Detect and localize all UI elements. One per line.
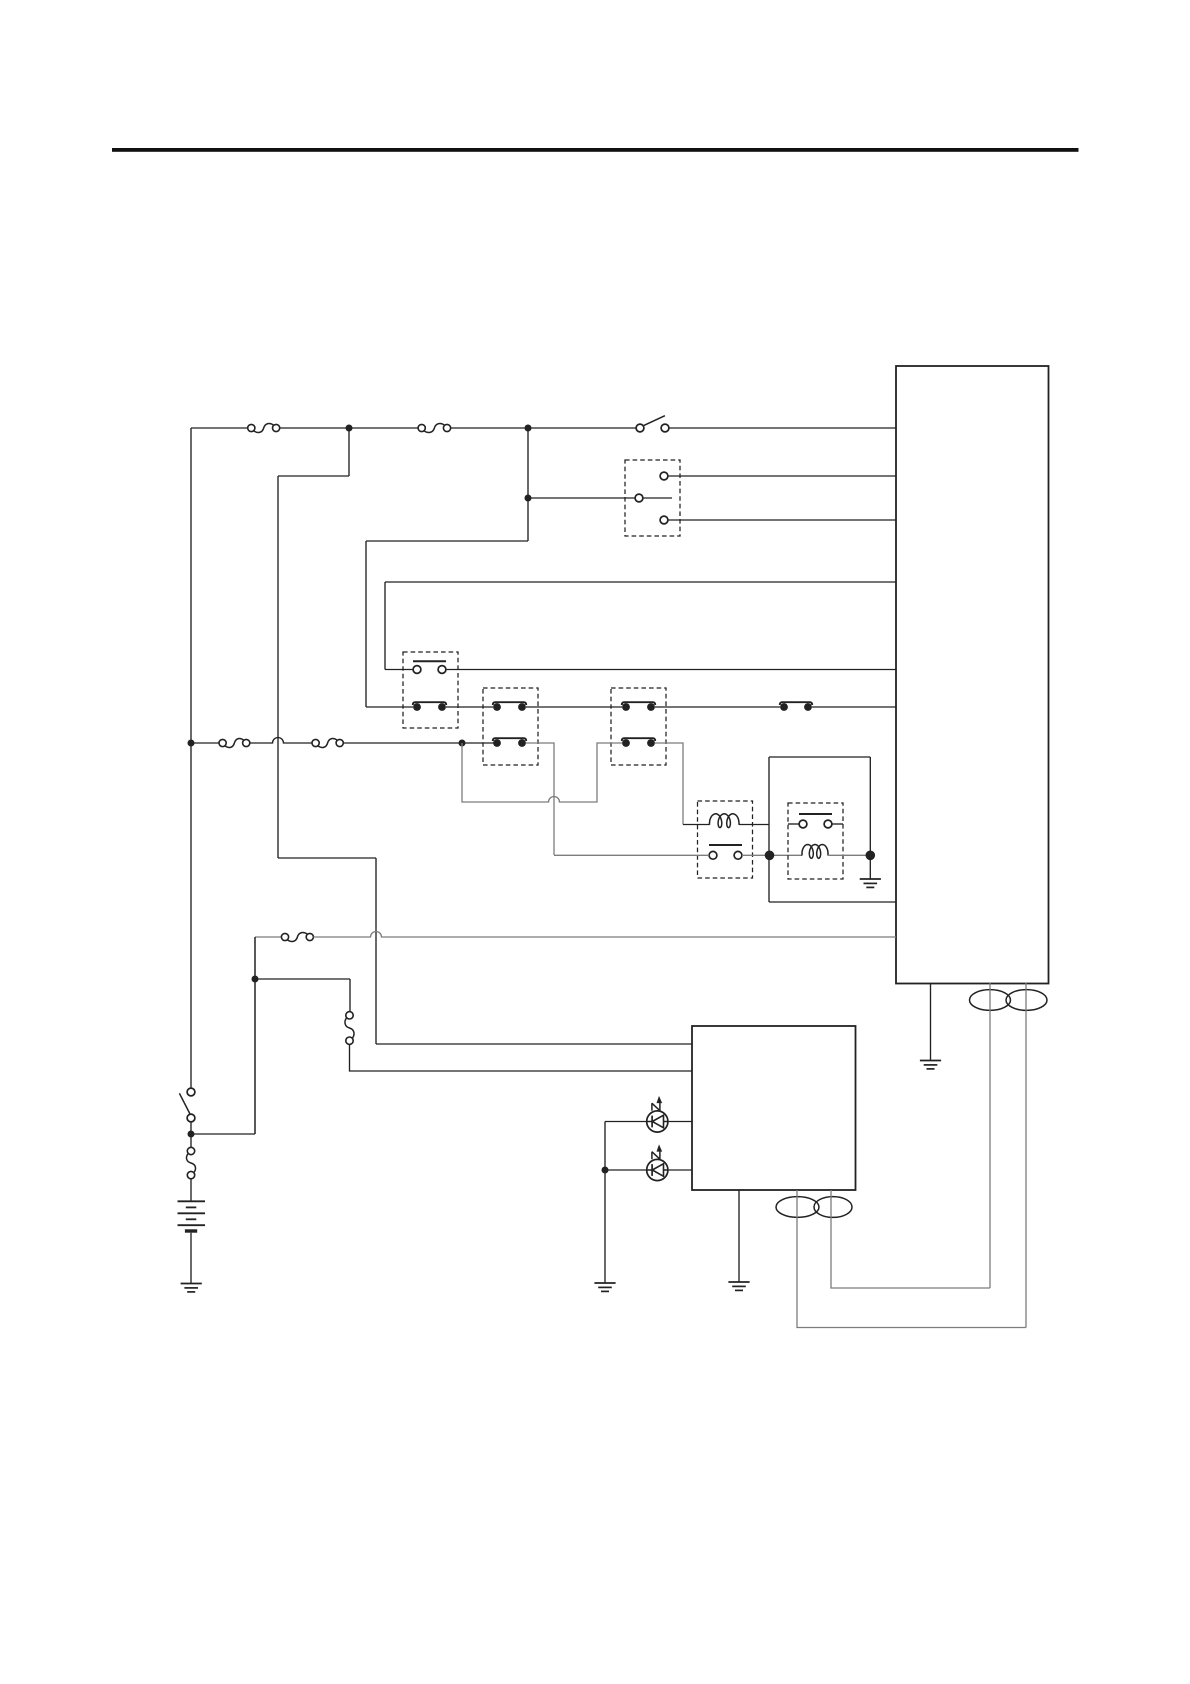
- ground G4 (meter): [728, 1281, 749, 1283]
- wire top feed y=428 segment C: [451, 427, 637, 429]
- page header rule: [112, 148, 1079, 152]
- connector contact pair P1: [780, 703, 788, 711]
- relay K1 open contact: [413, 666, 421, 674]
- kill switch S3: [187, 1088, 195, 1096]
- wire U1 pin x=990 down: [989, 983, 991, 1288]
- main switch S2 (dashed box): [625, 460, 680, 536]
- wire gray y=855 right: [828, 854, 866, 856]
- wire y=707 segment C: [526, 706, 622, 708]
- wire top feed y=428 segment A: [191, 427, 248, 429]
- wire y=743 segment A: [191, 742, 219, 744]
- wire switch S3 feed: [190, 1088, 192, 1090]
- wire J9 down: [190, 1134, 192, 1147]
- node J9: [188, 1131, 195, 1138]
- wire loop x=769 vertical: [768, 757, 770, 902]
- relay K2 lower closed contact: [493, 739, 501, 747]
- wire battery to ground: [190, 1233, 192, 1284]
- horn H1 (dashed box): [698, 801, 753, 878]
- node J4: [188, 740, 195, 747]
- relay K3 (dashed box): [611, 688, 666, 765]
- wire U1 pin y=582: [385, 581, 896, 583]
- main switch S2 common contact: [635, 494, 643, 502]
- relay K4 (dashed box): [788, 803, 843, 879]
- wire y=707 segment B: [446, 706, 493, 708]
- LED D2: [647, 1159, 668, 1180]
- node J7: [866, 851, 876, 861]
- fuse F1: [248, 424, 255, 431]
- wire J2 down: [527, 428, 529, 541]
- wire meter to ground: [738, 1190, 740, 1282]
- node J2: [525, 425, 532, 432]
- wire K3 to horn coil: [655, 743, 683, 825]
- wire switch S1 to U1 pin1: [669, 427, 896, 429]
- wire x=385 vertical: [384, 582, 386, 670]
- wire y=707 left segment: [366, 706, 413, 708]
- fuse F6 (vertical): [346, 1012, 353, 1019]
- wire U1 to ground: [930, 983, 932, 1061]
- wire loop x=870 vertical: [869, 757, 871, 855]
- wire coil H1 to x=769: [739, 824, 769, 826]
- wire top feed y=428 segment B: [280, 427, 418, 429]
- horn H1 coil: [710, 814, 740, 828]
- wire relay K1 to U1 pin: [446, 669, 896, 671]
- node J3: [525, 495, 532, 502]
- wire y=858 jog right: [278, 857, 376, 859]
- wire coil H1 left lead: [683, 824, 710, 826]
- wire y=476 left jog: [278, 475, 349, 477]
- wire y=743 to corner x=554: [526, 743, 554, 855]
- wire LED2 right lead: [668, 1169, 692, 1171]
- node J8: [252, 976, 259, 983]
- wire x=605 vertical: [604, 1122, 606, 1284]
- ground G1: [860, 878, 881, 880]
- wire x=255 vertical: [254, 937, 256, 1134]
- ground G5 (ECU): [920, 1060, 941, 1062]
- wire y=707 segment D: [655, 706, 780, 708]
- wire gray y=855 mid: [742, 854, 802, 856]
- LED D1: [647, 1111, 668, 1132]
- wire fuse F6 down corner: [350, 1044, 693, 1071]
- ground G3 (LED): [594, 1282, 615, 1284]
- relay K2 (dashed box): [483, 688, 538, 765]
- wire battery feed top-left vertical: [190, 428, 192, 1090]
- node J10: [602, 1167, 609, 1174]
- relay K3 upper closed contact: [622, 703, 630, 711]
- relay K1 (dashed box): [403, 652, 458, 728]
- wire LED1 left lead: [605, 1121, 647, 1123]
- fuse F5: [281, 933, 288, 940]
- relay K3 lower closed contact: [622, 739, 630, 747]
- wire meter pin x=831 loop: [831, 1190, 990, 1288]
- relay K1 closed contact: [413, 703, 421, 711]
- fuse F7 (vertical): [187, 1147, 194, 1154]
- wire J1 down: [348, 428, 350, 476]
- wire y=937 corner x=255: [255, 936, 281, 938]
- node J5: [459, 740, 466, 747]
- wire S3 to J9: [190, 1122, 192, 1134]
- wire y=937 with hop to U1: [313, 932, 896, 937]
- relay K4 coil: [802, 845, 828, 859]
- wire gray y=855 from x=554: [554, 854, 709, 856]
- wire LED1 right lead: [668, 1121, 692, 1123]
- ECU / control unit box U1: [896, 366, 1049, 984]
- wire LED2 left lead: [605, 1169, 647, 1171]
- wire y=743 segment C: [343, 742, 497, 744]
- wire y=979: [255, 978, 350, 980]
- battery BT1: [178, 1200, 206, 1202]
- node J6: [765, 851, 775, 861]
- wire J9 to x=255: [191, 1133, 255, 1135]
- ignition switch S1: [636, 424, 644, 432]
- wire meter pin x=797 loop: [797, 1190, 1026, 1328]
- wire y=669.5 to relay K1: [385, 669, 413, 671]
- fuse F2: [418, 424, 425, 431]
- wire y=743 segment B with hop: [250, 738, 312, 744]
- horn H1 lower open contact: [709, 851, 717, 859]
- main switch S2 contact b: [660, 516, 668, 524]
- fuse F4: [312, 739, 319, 746]
- wire F7 to battery: [190, 1179, 192, 1201]
- wire U1 pin x=1026 down: [1025, 983, 1027, 1328]
- relay K2 upper closed contact: [493, 703, 501, 711]
- connector CN1 (infinity): [970, 990, 1011, 1011]
- wire x=278 vertical: [277, 476, 279, 858]
- wire x=366 vertical: [365, 541, 367, 707]
- connector CN2 (infinity): [776, 1197, 819, 1218]
- wire to meter pin1 y=1044: [376, 1043, 692, 1045]
- main switch S2 contact a: [660, 472, 668, 480]
- meter / display unit box U2: [692, 1026, 856, 1190]
- wire x=376 vertical: [375, 858, 377, 1044]
- wire y=707 to U1: [812, 706, 896, 708]
- wire J3 to S2 common: [528, 497, 635, 499]
- wire J5 down and over (hop at 554): [462, 743, 622, 802]
- relay K4 open contact: [799, 820, 807, 828]
- wire x=350 down to fuse: [349, 979, 351, 1012]
- wire y=902 to U1: [769, 901, 896, 903]
- wire y=541 jog left: [366, 540, 528, 542]
- wire J7 to ground: [869, 855, 871, 879]
- fuse F3: [219, 739, 226, 746]
- node J1: [346, 425, 353, 432]
- wire loop top y=757: [769, 756, 870, 758]
- ground G2 (battery): [181, 1283, 202, 1285]
